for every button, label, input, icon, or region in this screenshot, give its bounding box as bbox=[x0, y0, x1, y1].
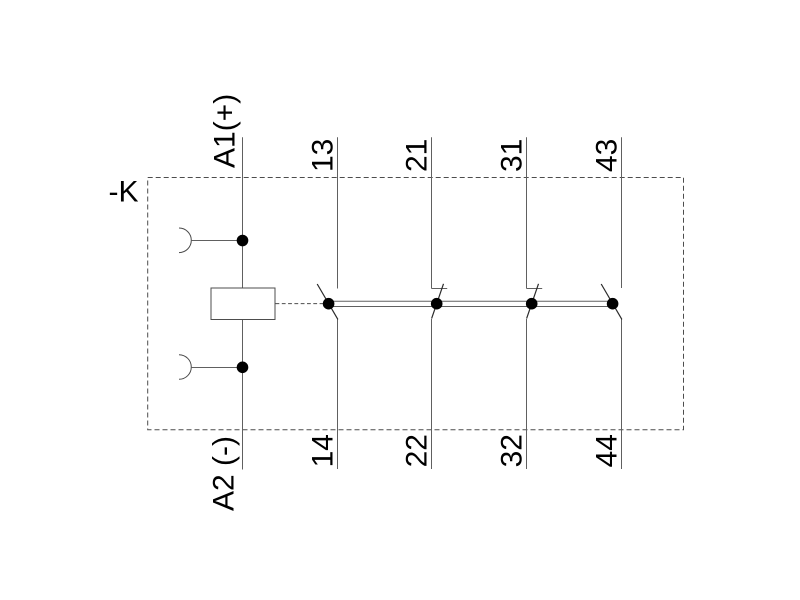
svg-text:-K: -K bbox=[109, 176, 139, 209]
svg-text:43: 43 bbox=[591, 139, 624, 172]
svg-text:44: 44 bbox=[591, 434, 624, 467]
svg-text:32: 32 bbox=[496, 434, 529, 467]
svg-text:14: 14 bbox=[307, 434, 340, 467]
svg-text:A1(+): A1(+) bbox=[209, 94, 242, 168]
svg-text:21: 21 bbox=[401, 139, 434, 172]
svg-text:A2 (-): A2 (-) bbox=[208, 436, 241, 511]
svg-text:13: 13 bbox=[307, 139, 340, 172]
svg-text:22: 22 bbox=[401, 434, 434, 467]
svg-text:31: 31 bbox=[496, 139, 529, 172]
